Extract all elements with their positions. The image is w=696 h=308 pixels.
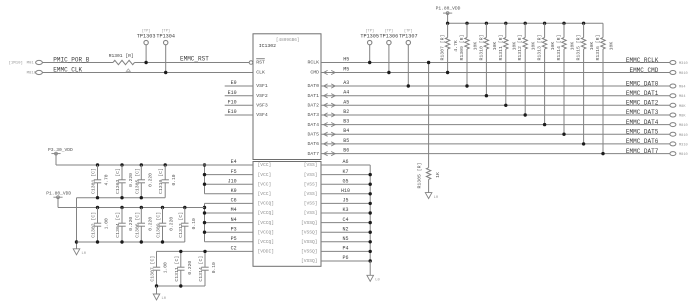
svg-text:1.00: 1.00 bbox=[163, 262, 169, 273]
svg-text:L0: L0 bbox=[375, 279, 380, 283]
svg-text:C1313 [C]: C1313 [C] bbox=[178, 212, 184, 238]
svg-text:B2: B2 bbox=[343, 109, 349, 115]
svg-text:C4: C4 bbox=[342, 217, 348, 223]
svg-text:C1301 [C]: C1301 [C] bbox=[91, 168, 97, 194]
svg-text:10K: 10K bbox=[511, 42, 517, 51]
svg-text:4.7K: 4.7K bbox=[453, 40, 459, 52]
svg-text:P5: P5 bbox=[231, 236, 237, 242]
svg-text:[VDDI]: [VDDI] bbox=[258, 249, 275, 255]
svg-text:DAT0: DAT0 bbox=[307, 83, 319, 89]
svg-text:EMMC_DAT7: EMMC_DAT7 bbox=[626, 148, 659, 155]
svg-text:[VCCQ]: [VCCQ] bbox=[258, 220, 275, 226]
svg-text:0.10: 0.10 bbox=[171, 174, 177, 185]
svg-text:VSF3: VSF3 bbox=[256, 103, 268, 109]
svg-text:L0: L0 bbox=[162, 297, 167, 301]
svg-text:C1311 [C]: C1311 [C] bbox=[174, 256, 180, 282]
svg-text:0.220: 0.220 bbox=[147, 217, 153, 231]
svg-text:[4809GB6]: [4809GB6] bbox=[276, 38, 300, 43]
svg-text:M4: M4 bbox=[231, 207, 237, 213]
svg-text:R1307 [R]: R1307 [R] bbox=[440, 35, 446, 61]
svg-text:P3.30_VDD: P3.30_VDD bbox=[48, 147, 73, 153]
svg-text:[VSS]: [VSS] bbox=[304, 162, 318, 168]
svg-text:[VSS]: [VSS] bbox=[304, 172, 318, 178]
svg-text:EMMC_DAT2: EMMC_DAT2 bbox=[626, 100, 659, 107]
svg-text:[TP]: [TP] bbox=[404, 29, 413, 34]
svg-text:R1301 [R]: R1301 [R] bbox=[109, 53, 134, 59]
svg-text:C1305 [C]: C1305 [C] bbox=[134, 168, 140, 194]
svg-text:VSF2: VSF2 bbox=[256, 93, 268, 99]
svg-text:10K: 10K bbox=[473, 42, 479, 51]
svg-text:[VCCQ]: [VCCQ] bbox=[258, 210, 275, 216]
svg-text:VSF1: VSF1 bbox=[256, 83, 268, 89]
svg-text:B5: B5 bbox=[343, 138, 349, 144]
svg-text:4.70: 4.70 bbox=[104, 174, 110, 185]
svg-text:EMMC_DAT6: EMMC_DAT6 bbox=[626, 138, 659, 145]
svg-text:M8K: M8K bbox=[679, 115, 686, 119]
svg-text:RST: RST bbox=[256, 60, 265, 66]
svg-text:M310: M310 bbox=[679, 62, 688, 66]
svg-text:J10: J10 bbox=[228, 178, 237, 184]
svg-text:[TP]: [TP] bbox=[365, 29, 374, 34]
svg-text:PMIC_POR_B: PMIC_POR_B bbox=[53, 57, 89, 64]
svg-text:F5: F5 bbox=[231, 169, 237, 175]
svg-text:[VSSQ]: [VSSQ] bbox=[301, 220, 318, 226]
svg-text:R1312 [R]: R1312 [R] bbox=[517, 35, 523, 61]
svg-text:EMMC_RCLK: EMMC_RCLK bbox=[626, 57, 659, 64]
svg-text:K7: K7 bbox=[342, 169, 348, 175]
svg-text:C1314 [C]: C1314 [C] bbox=[198, 256, 204, 282]
svg-text:[VSSQ]: [VSSQ] bbox=[301, 239, 318, 245]
svg-text:EMMC_RST: EMMC_RST bbox=[180, 55, 209, 62]
svg-text:N4: N4 bbox=[231, 217, 237, 223]
svg-text:M8K: M8K bbox=[679, 105, 686, 109]
svg-text:DAT6: DAT6 bbox=[307, 141, 319, 147]
svg-text:TP1307: TP1307 bbox=[399, 34, 418, 40]
svg-text:1K: 1K bbox=[435, 172, 441, 178]
svg-text:J5: J5 bbox=[342, 198, 348, 204]
svg-text:M5: M5 bbox=[343, 67, 349, 73]
svg-text:K3: K3 bbox=[342, 207, 348, 213]
svg-text:VSF4: VSF4 bbox=[256, 112, 268, 118]
svg-text:[VCC]: [VCC] bbox=[258, 162, 272, 168]
svg-text:A5: A5 bbox=[343, 99, 349, 105]
svg-text:[TP]: [TP] bbox=[142, 29, 151, 34]
svg-text:C1302 [C]: C1302 [C] bbox=[91, 212, 97, 238]
svg-text:RCLK: RCLK bbox=[307, 60, 319, 66]
svg-text:C1304 [C]: C1304 [C] bbox=[115, 212, 121, 238]
svg-text:C1310 [C]: C1310 [C] bbox=[158, 168, 164, 194]
svg-text:P4: P4 bbox=[342, 246, 348, 252]
svg-text:A4: A4 bbox=[343, 90, 349, 96]
svg-text:0.220: 0.220 bbox=[147, 173, 153, 187]
svg-text:[VSS]: [VSS] bbox=[304, 181, 318, 187]
svg-text:R1311 [R]: R1311 [R] bbox=[498, 35, 504, 61]
svg-text:M810: M810 bbox=[679, 153, 688, 157]
svg-text:DAT7: DAT7 bbox=[307, 151, 319, 157]
svg-text:0.220: 0.220 bbox=[169, 217, 175, 231]
svg-text:C1306 [C]: C1306 [C] bbox=[134, 212, 140, 238]
svg-text:C2: C2 bbox=[231, 246, 237, 252]
svg-text:[TP]: [TP] bbox=[161, 29, 170, 34]
svg-text:B4: B4 bbox=[343, 128, 349, 134]
svg-text:R1314 [R]: R1314 [R] bbox=[556, 35, 562, 61]
svg-text:EMMC_CMD: EMMC_CMD bbox=[629, 67, 658, 74]
svg-text:R1305 [R]: R1305 [R] bbox=[417, 163, 423, 189]
svg-text:M01: M01 bbox=[27, 62, 35, 66]
svg-text:10K: 10K bbox=[570, 42, 576, 51]
svg-text:10K: 10K bbox=[492, 42, 498, 51]
svg-text:0.10: 0.10 bbox=[211, 262, 217, 273]
svg-text:0.220: 0.220 bbox=[128, 173, 134, 187]
svg-text:M810: M810 bbox=[679, 124, 688, 128]
svg-text:EMMC_CLK: EMMC_CLK bbox=[53, 66, 82, 73]
svg-text:0.10: 0.10 bbox=[191, 218, 197, 229]
svg-text:C6: C6 bbox=[231, 198, 237, 204]
svg-text:R1310 [R]: R1310 [R] bbox=[478, 35, 484, 61]
svg-text:M310: M310 bbox=[679, 143, 688, 147]
svg-text:B3: B3 bbox=[343, 119, 349, 125]
svg-text:H10: H10 bbox=[341, 188, 350, 194]
svg-text:[VSS]: [VSS] bbox=[304, 191, 318, 197]
svg-text:[VCCQ]: [VCCQ] bbox=[258, 229, 275, 235]
svg-text:[VCCQ]: [VCCQ] bbox=[258, 239, 275, 245]
svg-text:R1313 [R]: R1313 [R] bbox=[537, 35, 543, 61]
svg-text:[VCC]: [VCC] bbox=[258, 172, 272, 178]
svg-text:R1309 [R]: R1309 [R] bbox=[459, 35, 465, 61]
svg-text:K9: K9 bbox=[231, 188, 237, 194]
svg-text:1.00: 1.00 bbox=[104, 218, 110, 229]
svg-text:[VCCQ]: [VCCQ] bbox=[258, 201, 275, 207]
svg-text:TP1304: TP1304 bbox=[156, 34, 175, 40]
svg-text:C1303 [C]: C1303 [C] bbox=[115, 168, 121, 194]
svg-text:[VSSQ]: [VSSQ] bbox=[301, 249, 318, 255]
svg-text:EMMC_DAT1: EMMC_DAT1 bbox=[626, 90, 659, 97]
svg-text:M810: M810 bbox=[679, 134, 688, 138]
svg-text:E10: E10 bbox=[228, 109, 237, 115]
svg-text:DAT5: DAT5 bbox=[307, 131, 319, 137]
svg-text:R1315 [R]: R1315 [R] bbox=[576, 35, 582, 61]
svg-text:[VSS]: [VSS] bbox=[304, 210, 318, 216]
svg-text:DAT3: DAT3 bbox=[307, 112, 319, 118]
svg-text:M04: M04 bbox=[679, 86, 685, 90]
svg-text:H5: H5 bbox=[343, 57, 349, 63]
svg-text:10K: 10K bbox=[550, 42, 556, 51]
svg-text:C1309 [C]: C1309 [C] bbox=[156, 212, 162, 238]
svg-text:TP1305: TP1305 bbox=[360, 34, 379, 40]
svg-text:[VSSQ]: [VSSQ] bbox=[301, 229, 318, 235]
svg-text:C1307 [C]: C1307 [C] bbox=[150, 256, 156, 282]
svg-text:L0: L0 bbox=[434, 196, 439, 200]
svg-text:TP1306: TP1306 bbox=[380, 34, 399, 40]
svg-text:[1M10]: [1M10] bbox=[9, 60, 23, 65]
svg-text:E4: E4 bbox=[231, 159, 237, 165]
svg-text:CLK: CLK bbox=[256, 70, 265, 76]
svg-text:N2: N2 bbox=[342, 226, 348, 232]
svg-text:[VSSQ]: [VSSQ] bbox=[301, 258, 318, 264]
svg-text:E9: E9 bbox=[231, 80, 237, 86]
svg-text:F10: F10 bbox=[228, 100, 237, 106]
svg-text:G5: G5 bbox=[342, 178, 348, 184]
svg-text:R1316 [R]: R1316 [R] bbox=[595, 35, 601, 61]
svg-text:[VCC]: [VCC] bbox=[258, 191, 272, 197]
svg-text:M84: M84 bbox=[679, 95, 685, 99]
svg-text:P3: P3 bbox=[231, 226, 237, 232]
svg-text:EMMC_DAT5: EMMC_DAT5 bbox=[626, 129, 659, 136]
svg-text:10K: 10K bbox=[609, 42, 615, 51]
svg-text:[TP]: [TP] bbox=[385, 29, 394, 34]
svg-text:[VCC]: [VCC] bbox=[258, 181, 272, 187]
svg-text:0.220: 0.220 bbox=[187, 261, 193, 275]
svg-text:10K: 10K bbox=[531, 42, 537, 51]
svg-text:L0: L0 bbox=[82, 252, 87, 256]
svg-text:TP1303: TP1303 bbox=[137, 34, 156, 40]
svg-text:[VSS]: [VSS] bbox=[304, 201, 318, 207]
svg-text:A6: A6 bbox=[342, 159, 348, 165]
svg-text:DAT1: DAT1 bbox=[307, 93, 319, 99]
svg-text:0.220: 0.220 bbox=[128, 217, 134, 231]
svg-text:N5: N5 bbox=[342, 236, 348, 242]
svg-text:DAT4: DAT4 bbox=[307, 122, 319, 128]
svg-text:P1.80_VDD: P1.80_VDD bbox=[436, 6, 461, 12]
svg-text:EMMC_DAT3: EMMC_DAT3 bbox=[626, 109, 659, 116]
svg-text:A3: A3 bbox=[343, 80, 349, 86]
svg-text:CMD: CMD bbox=[310, 70, 319, 76]
svg-text:P6: P6 bbox=[342, 255, 348, 261]
svg-text:M810: M810 bbox=[679, 72, 688, 76]
svg-text:EMMC_DAT0: EMMC_DAT0 bbox=[626, 80, 659, 87]
svg-text:E10: E10 bbox=[228, 90, 237, 96]
svg-text:EMMC_DAT4: EMMC_DAT4 bbox=[626, 119, 659, 126]
svg-text:B6: B6 bbox=[343, 148, 349, 154]
svg-text:IC1302: IC1302 bbox=[259, 43, 276, 49]
svg-text:10K: 10K bbox=[589, 42, 595, 51]
svg-text:DAT2: DAT2 bbox=[307, 103, 319, 109]
